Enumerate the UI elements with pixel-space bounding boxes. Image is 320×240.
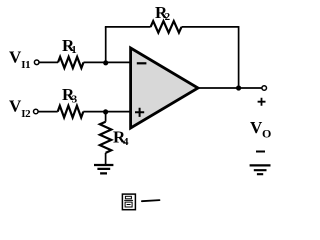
- resistor R1: [58, 57, 84, 68]
- op-amp inverting input marker -: [137, 62, 147, 64]
- wire input VI1 to R1: [39, 61, 58, 63]
- svg-text:I2: I2: [21, 108, 31, 120]
- node output junction: [236, 85, 241, 90]
- svg-text:2: 2: [165, 11, 171, 23]
- wire R4 to ground: [105, 153, 107, 164]
- node junction J1: [103, 60, 108, 65]
- node junction J2: [103, 109, 108, 114]
- output polarity plus: [258, 98, 266, 106]
- ground under R4: [94, 165, 113, 173]
- caption glyph TU (figure) outer box: [122, 194, 135, 210]
- wire R1 to op-amp inverting input: [84, 61, 131, 63]
- caption glyph TU bottom inner stroke: [127, 204, 131, 206]
- svg-text:1: 1: [71, 44, 77, 56]
- wire top left to R2: [105, 26, 151, 28]
- svg-text:V: V: [9, 96, 22, 115]
- ground at output: [250, 165, 271, 174]
- wire input VI2 to R3: [38, 111, 57, 113]
- caption glyph TU middle stroke: [124, 199, 133, 201]
- svg-text:V: V: [9, 47, 22, 66]
- svg-text:O: O: [262, 126, 271, 140]
- op-amp U1: [131, 48, 198, 128]
- terminal VO: [262, 86, 267, 91]
- wire R3 to op-amp non-inverting input: [83, 111, 130, 113]
- svg-text:4: 4: [123, 136, 129, 148]
- wire J2 down to R4: [105, 112, 107, 122]
- terminal VI1: [34, 60, 39, 65]
- terminal VI2: [34, 109, 39, 114]
- svg-text:3: 3: [72, 93, 78, 105]
- resistor R4: [100, 122, 112, 153]
- wire op-amp output to terminal: [197, 87, 262, 89]
- caption glyph TU bottom box: [125, 202, 132, 207]
- caption glyph YI (one): [142, 200, 160, 201]
- caption glyph TU inner top box: [125, 196, 131, 199]
- resistor R3: [58, 106, 84, 118]
- wire R2 to right vertical: [182, 26, 239, 28]
- op-amp non-inverting input marker +: [135, 108, 144, 117]
- output polarity minus: [256, 151, 265, 153]
- resistor R2: [151, 21, 182, 33]
- wire feedback right vertical: [238, 26, 240, 88]
- wire feedback left vertical: [105, 27, 107, 63]
- svg-text:I1: I1: [21, 59, 30, 71]
